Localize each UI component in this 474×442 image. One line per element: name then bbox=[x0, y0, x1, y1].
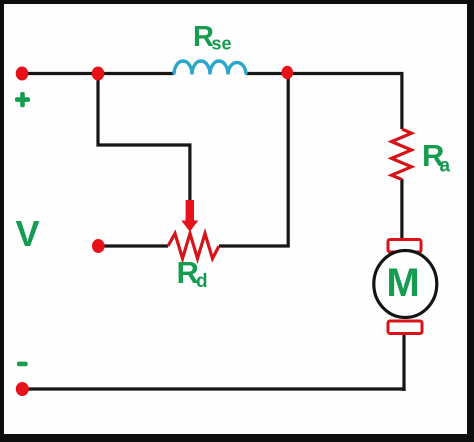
terminal dot + (top left) bbox=[16, 67, 29, 81]
motor M body (ellipse) bbox=[374, 251, 437, 318]
svg-text:d: d bbox=[196, 271, 208, 292]
wire: junction A down, right, down to arrow bbox=[98, 74, 190, 201]
wire: bottom rail from - terminal to bottom-right corner bbox=[22, 387, 406, 390]
wire: motor bottom lead down to bottom-right corner bbox=[402, 334, 405, 391]
resistor Rd zigzag (horizontal) bbox=[168, 234, 219, 259]
junction B dot bbox=[282, 66, 294, 80]
wire: V terminal to Rd left lead bbox=[100, 244, 168, 247]
svg-text:M: M bbox=[386, 261, 419, 305]
terminal dot - (bottom left) bbox=[16, 382, 29, 396]
svg-text:se: se bbox=[212, 34, 232, 54]
motor bottom brush (red rectangle) bbox=[388, 321, 422, 334]
label + (plus sign) bbox=[15, 97, 30, 102]
wire: top rail left segment from + terminal to inductor bbox=[22, 72, 174, 75]
border frame bottom bbox=[0, 434, 474, 442]
terminal dot V (middle left) bbox=[92, 239, 105, 253]
junction A dot bbox=[92, 67, 105, 81]
border frame top bbox=[0, 0, 474, 4]
svg-text:a: a bbox=[440, 156, 451, 177]
svg-text:V: V bbox=[16, 213, 40, 254]
wire: top rail right segment from inductor to top-right corner, down to Ra bbox=[246, 74, 402, 130]
motor top brush (red rectangle) bbox=[388, 240, 421, 253]
inductor Rse coil (4 humps, cyan) bbox=[174, 61, 246, 75]
wire: Rd right lead to junction B vertical bbox=[219, 74, 288, 247]
label - (minus sign) bbox=[17, 362, 28, 367]
wire: Ra bottom lead down to motor top brush bbox=[400, 179, 403, 241]
border frame left bbox=[0, 0, 4, 442]
border frame right bbox=[467, 0, 474, 442]
resistor Ra zigzag (vertical) bbox=[392, 129, 412, 180]
arrow (red, pointing down onto Rd wiper) bbox=[186, 200, 194, 222]
